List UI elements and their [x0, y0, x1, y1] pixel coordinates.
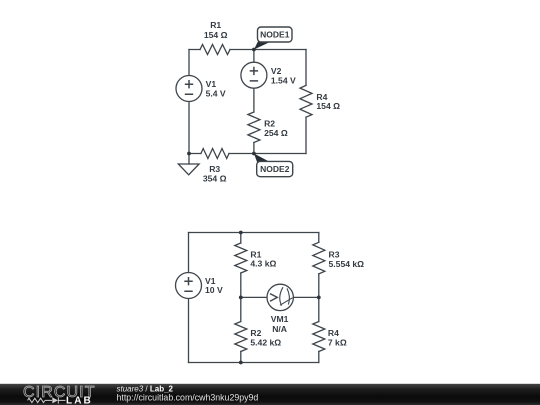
svg-text:http://circuitlab.com/cwh3nku2: http://circuitlab.com/cwh3nku29py9d — [117, 393, 259, 403]
svg-text:10 V: 10 V — [205, 285, 223, 295]
svg-text:5.4 V: 5.4 V — [206, 89, 226, 99]
svg-text:254 Ω: 254 Ω — [264, 128, 288, 138]
svg-text:354 Ω: 354 Ω — [203, 174, 227, 184]
svg-text:VM1: VM1 — [271, 314, 289, 324]
svg-text:154 Ω: 154 Ω — [204, 30, 228, 40]
svg-text:5.42 kΩ: 5.42 kΩ — [250, 338, 281, 348]
svg-text:V2: V2 — [271, 66, 282, 76]
svg-text:5.554 kΩ: 5.554 kΩ — [329, 259, 365, 269]
svg-text:1.54 V: 1.54 V — [271, 76, 296, 86]
svg-text:R1: R1 — [210, 20, 221, 30]
svg-text:R2: R2 — [264, 119, 275, 129]
svg-text:NODE1: NODE1 — [260, 30, 290, 40]
svg-text:V1: V1 — [206, 79, 217, 89]
svg-text:4.3 kΩ: 4.3 kΩ — [250, 259, 276, 269]
svg-text:N/A: N/A — [272, 324, 287, 334]
svg-text:R3: R3 — [209, 164, 220, 174]
svg-text:LAB: LAB — [66, 395, 93, 405]
svg-text:7 kΩ: 7 kΩ — [328, 338, 347, 348]
svg-text:154 Ω: 154 Ω — [316, 101, 340, 111]
svg-text:NODE2: NODE2 — [260, 164, 290, 174]
